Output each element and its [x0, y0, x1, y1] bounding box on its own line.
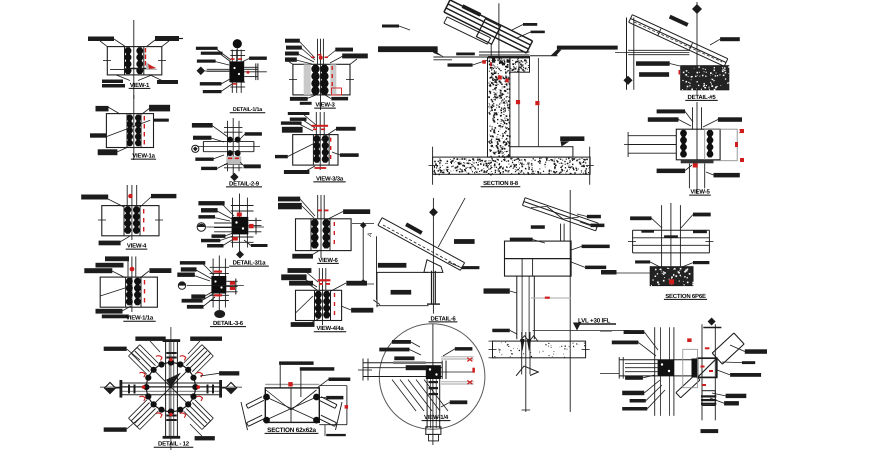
column: [426, 379, 428, 428]
svg-text:VIEW-1: VIEW-1: [130, 82, 150, 89]
detail VIEW-5: [624, 102, 744, 196]
gusset: [424, 260, 443, 273]
detail VIEW-4: [81, 185, 176, 250]
anchor bolts: [518, 60, 520, 147]
right dim: [346, 386, 348, 425]
svg-text:SECTION 6P6E: SECTION 6P6E: [665, 293, 706, 300]
brace up-right: [712, 333, 734, 353]
detail cap beam with brace: [484, 190, 631, 412]
diagonal brace member: [450, 0, 533, 41]
gray rails + red: [441, 356, 474, 358]
brace member: [382, 218, 465, 263]
gusset flag: [516, 366, 538, 376]
svg-text:DETAIL-#5: DETAIL-#5: [687, 94, 716, 101]
flag: [166, 373, 181, 388]
svg-text:VIEW-3: VIEW-3: [315, 102, 335, 109]
svg-text:VIEW-1/1a: VIEW-1/1a: [126, 315, 154, 322]
svg-text:SECTION 62x62a: SECTION 62x62a: [267, 427, 316, 434]
svg-text:DETAIL-3/1a: DETAIL-3/1a: [233, 260, 267, 267]
detail DETAIL-3/1a: [197, 194, 269, 267]
detail DETAIL-3-6: [177, 256, 246, 328]
left beam: [628, 135, 676, 137]
svg-text:VIEW-1a: VIEW-1a: [132, 153, 155, 160]
svg-text:DETAIL-3-6: DETAIL-3-6: [213, 320, 244, 327]
right wing: [321, 397, 337, 405]
left column: [626, 18, 628, 90]
detail DETAIL-2-9: [192, 118, 262, 187]
svg-text:VIEW-4: VIEW-4: [127, 243, 147, 250]
hatching: [392, 380, 416, 412]
detail VIEW-1/1a: [84, 256, 171, 321]
svg-text:DETAIL-1/1a: DETAIL-1/1a: [233, 107, 263, 113]
dimension line: [362, 224, 364, 284]
horizontal member: [121, 382, 221, 384]
detail VIEW-3: [285, 39, 368, 110]
detail DETAIL-1/1a: [196, 39, 267, 113]
detail VIEW-1a: [90, 95, 170, 160]
right node square: [698, 358, 717, 377]
detail VIEW-1/4 circle: [358, 324, 485, 445]
beam horizontals: [619, 359, 697, 361]
vertical member: [165, 341, 167, 438]
svg-text:VIEW-4/4a: VIEW-4/4a: [316, 325, 344, 332]
detail DETAIL-5 brace to pedestal: [615, 2, 740, 101]
detail DETAIL-12 bolt ring: [100, 327, 242, 450]
bolt stack: [702, 391, 715, 406]
svg-text:SECTION 8-8: SECTION 8-8: [483, 180, 519, 187]
cap beam: [505, 241, 572, 259]
plan detail bottom-right: [600, 318, 767, 434]
slab section: [489, 332, 590, 412]
brace down-left: [681, 380, 700, 398]
beams: [633, 229, 710, 231]
detail DETAIL-6: [376, 198, 479, 322]
svg-text:VIEW-5: VIEW-5: [690, 189, 710, 196]
brace member: [525, 198, 598, 224]
left wing: [248, 400, 264, 408]
dimension box: [376, 271, 428, 273]
left node block: [658, 360, 674, 376]
leaders: [279, 365, 281, 388]
section 62x62a: [241, 361, 350, 436]
diagonals X: [171, 387, 207, 423]
svg-text:DETAIL-2-9: DETAIL-2-9: [229, 180, 260, 187]
ground line left: [378, 46, 438, 52]
ground line right: [557, 46, 618, 50]
bolt ring: [146, 363, 195, 412]
diagonal members: [192, 403, 210, 421]
footing concrete: [433, 157, 590, 174]
beam: [363, 362, 442, 364]
red arrows: [197, 396, 203, 401]
svg-text:VIEW-3/3a: VIEW-3/3a: [316, 175, 344, 182]
detail VIEW-6: [278, 195, 380, 305]
red dashed plate: [705, 129, 738, 161]
svg-text:DETAIL-6: DETAIL-6: [431, 315, 457, 322]
side markers: [105, 383, 116, 394]
brace member: [632, 15, 728, 59]
detail VIEW-1: [88, 20, 183, 99]
detail VIEW-4/4a: [281, 268, 373, 332]
concrete block: [681, 66, 729, 90]
section 6P6E: [601, 203, 713, 300]
column: [516, 276, 518, 339]
svg-text:VIEW-1/4: VIEW-1/4: [424, 414, 449, 421]
column through slab: [521, 332, 523, 374]
left node verticals: [654, 327, 656, 416]
svg-text:VIEW-6: VIEW-6: [318, 257, 338, 264]
box with bolts: [676, 129, 720, 160]
detail VIEW-3/3a: [275, 112, 359, 182]
svg-text:DETAIL - 12: DETAIL - 12: [158, 441, 190, 448]
section 8-8 pedestal: [378, 0, 618, 187]
pedestal concrete: [488, 57, 510, 157]
plinth: [510, 147, 573, 157]
node block: [426, 365, 441, 379]
concrete block: [650, 267, 693, 286]
